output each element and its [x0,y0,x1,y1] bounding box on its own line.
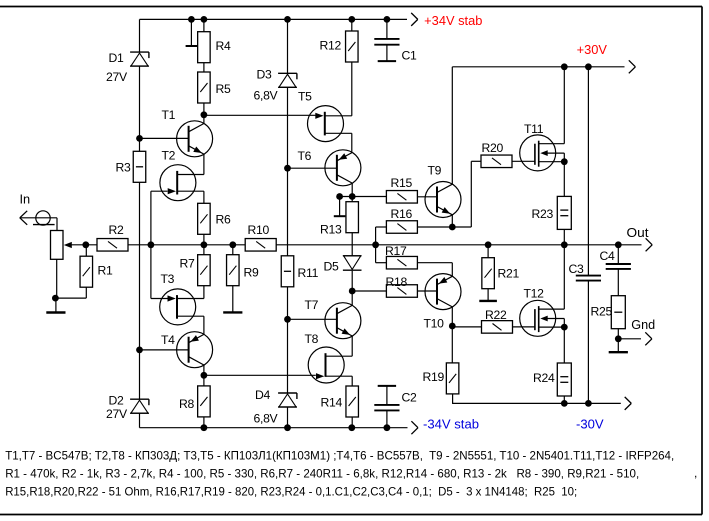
wire T1 base [140,137,189,139]
svg-text:C4: C4 [600,249,616,263]
wire R20 to T11 gate [512,160,535,162]
label D4 68V [254,412,279,426]
svg-text:R1: R1 [98,264,114,278]
label In [20,192,31,207]
label -30V [576,418,604,432]
label +34V stab [424,14,482,28]
resistor R9 [227,255,240,286]
svg-text:R5: R5 [216,82,232,96]
svg-text:D1: D1 [109,51,125,65]
wire R16 left bend [376,227,387,245]
resistor R7 [198,255,211,286]
label D2 27V [106,407,128,421]
power arrow +34V [411,13,418,26]
wire to R20 [452,161,481,227]
ground Gnd [609,339,628,352]
wire +34V top rail [140,18,408,20]
wire R5 to T1 [203,103,205,124]
transistor T1 [177,121,213,157]
wire R18 line [352,290,386,292]
node T10 collector junction [449,323,456,330]
node R8 rail junction [201,424,208,431]
transistor T2 [160,165,204,201]
node R21 junction [485,241,492,248]
wire C3 bottom [587,281,589,404]
resistor R24 [557,363,571,396]
resistor R19 [446,363,459,394]
label Out [627,225,649,240]
node T6 base junction [284,165,291,172]
wire D5 to T7 [351,271,353,306]
wire R1 bottom [55,287,86,298]
capacitor C2 [374,405,399,411]
wire T8 gate line [204,374,316,376]
wire D2 to rail [139,413,141,427]
svg-text:-30V: -30V [576,418,604,432]
wire R18 to T10 base [417,290,436,292]
svg-text:In: In [20,192,31,207]
wire bias to R11 [287,168,289,256]
resistor R20 [481,155,512,168]
label R20 [482,141,504,155]
label Gnd [631,317,655,332]
node output junction R16R17 [372,241,379,248]
svg-text:R24: R24 [533,371,555,385]
wire D3 to T6 base [287,88,289,169]
svg-text:T3: T3 [161,272,175,286]
resistor R2 [97,239,128,252]
svg-text:R13: R13 [320,223,342,237]
wire R16 right [417,226,452,228]
terminal bar C1 [378,60,396,62]
resistor R4 [198,32,211,63]
label D1 27V [106,70,128,84]
label T12 [524,287,545,301]
wire C4 top [617,245,619,264]
transistor T6 [325,150,361,186]
node R13 top junction [349,193,356,200]
label R25 [591,305,613,319]
wire T4 collector [203,365,205,386]
label T5 [298,90,312,104]
wire T5 source to T6 [351,133,353,152]
svg-text:C2: C2 [402,391,418,405]
wire R21 top [487,245,489,258]
input arrow [20,211,27,225]
label T1 [162,108,176,122]
resistor R13 [346,202,359,233]
label D4 [255,388,271,402]
wire R3 to T4 base [139,182,141,399]
resistor R11 [281,256,294,287]
svg-text:Gnd: Gnd [631,317,655,332]
svg-text:R12: R12 [320,39,342,53]
node C2 rail junction [384,424,391,431]
wire R22 left [452,326,481,328]
node T4 collector junction [201,372,208,379]
label T4 [161,333,175,347]
resistor R5 [198,72,211,103]
wire R24 bottom [563,396,565,403]
wire T2 gate [151,191,168,245]
label D3 68V [254,89,279,103]
node R6 R7 junction [201,241,208,248]
label R23 [532,207,554,221]
resistor R15 [386,191,417,204]
ground input [46,298,65,312]
wire C1 top [386,19,388,39]
label T2 [162,149,176,163]
svg-text:+30V: +30V [577,43,608,57]
label T10 [424,317,445,331]
transistor T9 [425,182,461,218]
label R14 [321,396,343,410]
svg-text:6,8V: 6,8V [254,89,279,103]
text parts line 3 [5,485,577,499]
zener D1 [130,52,149,66]
potentiometer input pot [51,231,64,260]
zener D3 [278,73,297,87]
node rail junction A [188,16,195,23]
ground R21 [479,289,497,301]
node input ground junction [52,295,59,302]
resistor R17 [386,256,417,269]
node C1 rail junction [384,16,391,23]
label R2 [109,223,125,237]
svg-text:R11: R11 [298,266,319,280]
svg-text:T10: T10 [424,317,445,331]
wire R19 bottom [452,394,454,404]
node gate junction [148,241,155,248]
label R16 [391,207,413,221]
svg-text:R15: R15 [391,176,413,190]
svg-text:,: , [694,466,697,480]
node T9 emitter junction [449,224,456,231]
svg-text:R6: R6 [216,213,232,227]
svg-text:D4: D4 [255,388,271,402]
resistor R8 [198,386,211,417]
label R7 [180,257,196,271]
node R14 rail junction [348,424,355,431]
label R22 [485,308,507,322]
svg-text:R23: R23 [532,207,554,221]
diode D5 [343,256,362,270]
wire T5 gate line [204,114,316,116]
resistor R14 [346,386,359,417]
svg-text:6,8V: 6,8V [254,412,279,426]
wire T2 source to R6 [203,191,205,203]
wire pot bottom [56,259,58,298]
resistor R18 [386,285,417,298]
label R24 [533,371,555,385]
wire T10 collector [451,307,453,326]
svg-text:R9: R9 [244,266,260,280]
zener D4 [278,393,297,407]
label R17 [385,244,407,258]
wire R14 bottom [351,417,353,428]
resistor R1 [80,256,93,287]
text parts line 2 [5,467,639,481]
wire -30V rail [452,402,621,404]
node R4 top junction [201,16,208,23]
svg-text:T4: T4 [161,333,175,347]
power arrow +30V [629,60,636,73]
wire C2 bottom [386,410,388,427]
wire R4 to R5 [203,63,205,72]
label R1 [98,264,114,278]
wire R1 top [85,245,87,256]
resistor R22 [482,321,513,334]
wire C4 to R25 [617,269,619,296]
label D2 [109,394,125,408]
label D1 [109,51,125,65]
svg-text:R22: R22 [485,308,507,322]
label R4 [216,39,232,53]
label R6 [216,213,232,227]
svg-text:Out: Out [627,225,649,240]
transistor T11 [520,135,565,171]
transistor T10 [425,274,461,310]
svg-text:27V: 27V [106,407,128,421]
svg-text:T8: T8 [305,332,319,346]
output arrow Gnd [645,332,652,345]
svg-text:R7: R7 [180,257,196,271]
node D3 rail junction [284,16,291,23]
label C4 [600,249,616,263]
label R12 [320,39,342,53]
label R8 [179,397,195,411]
svg-text:R3: R3 [116,161,132,175]
wire T11 drain [563,67,565,144]
transistor T5 [308,106,352,142]
node T11 drain rail junction [561,63,568,70]
label T8 [305,332,319,346]
wire D1 to R3 [139,66,141,151]
wire R12 top [351,19,353,31]
svg-text:C1: C1 [402,49,418,63]
svg-text:R14: R14 [321,396,343,410]
wire R12 to T5 [351,62,353,116]
wire R7 top [203,245,205,255]
label R21 [498,267,520,281]
wire -34V stab rail [140,427,408,429]
node C3 rail junction bottom [585,400,592,407]
wire R6 bottom [203,234,205,245]
capacitor C1 [374,39,399,45]
node T11 source junction [561,158,568,165]
label R13 [320,223,342,237]
node D5 bottom junction [349,288,356,295]
node T4 base junction [136,347,143,354]
wire R15 to T9 base [417,196,436,198]
node Gnd junction [615,335,622,342]
svg-text:T6: T6 [298,149,312,163]
power arrow -30V [625,397,632,410]
label C1 [402,49,418,63]
node D4 rail junction [284,424,291,431]
wire R17 left bend [376,245,387,263]
wire R11 to T7 base [287,287,289,393]
wire Gnd arrow line [618,338,641,340]
label +30V [577,43,608,57]
wire T3 source to T4 [203,316,205,334]
wire T4 base [140,349,189,351]
label R18 [386,275,408,289]
svg-text:T5: T5 [298,90,312,104]
wire T3 gate [151,245,168,299]
wire R9 top [232,245,234,255]
terminal bar C2 [378,385,396,387]
node R24 rail junction [561,400,568,407]
svg-text:D2: D2 [109,394,125,408]
label R3 [116,161,132,175]
label T7 [305,298,319,312]
node T1 base junction [136,135,143,142]
svg-text:R16: R16 [391,207,413,221]
resistor R3 [133,151,146,182]
svg-text:R18: R18 [386,275,408,289]
wire C3 top [587,67,589,276]
wire T6 base [288,167,337,169]
terminal bar near R4 [186,19,198,46]
label T3 [161,272,175,286]
svg-text:R25: R25 [591,305,613,319]
resistor R25 [611,296,625,329]
wire D3 top [287,19,289,73]
label D5 [324,260,340,274]
svg-text:T12: T12 [524,287,545,301]
wire T11 source to R23 [563,162,565,197]
resistor R6 [198,203,211,234]
svg-text:T1: T1 [162,108,176,122]
svg-text:T7: T7 [305,298,319,312]
svg-text:T11: T11 [524,122,544,136]
resistor R21 [482,258,495,289]
svg-text:R2: R2 [109,223,125,237]
text parts line 1 [5,448,674,462]
node T12 source junction [561,324,568,331]
label R19 [423,370,445,384]
wire R13 to D5 [351,233,353,256]
wire +30V rail [452,66,624,68]
wire T6 collector [351,183,353,201]
svg-text:R15,R18,R20,R22 - 51 Ohm, R16,: R15,R18,R20,R22 - 51 Ohm, R16,R17,R19 - … [5,485,577,499]
wire output line [71,244,641,246]
wire R19 top [451,326,453,363]
wire D4 to rail [287,407,289,428]
node output junction R23 [561,241,568,248]
output arrow Out [646,238,653,251]
wire T8 source to R14 [351,376,353,386]
svg-text:R1 - 470k, R2 - 1k, R3 - 2,7k,: R1 - 470k, R2 - 1k, R3 - 2,7k, R4 - 100,… [5,467,639,481]
label T9 [428,164,442,178]
svg-text:R20: R20 [482,141,504,155]
svg-text:27V: 27V [106,70,128,84]
wire R25 bottom [617,329,619,339]
svg-text:R4: R4 [216,39,232,53]
node T1 collector junction [201,111,208,118]
wire D1 top [139,19,141,52]
wire T12 drain [563,245,565,309]
label R5 [216,82,232,96]
svg-text:D3: D3 [257,68,273,82]
svg-text:R19: R19 [423,370,445,384]
label R10 [248,223,270,237]
node C4 output junction [615,241,622,248]
label -34V stab [423,418,479,432]
wire R22 to T12 gate [513,326,535,328]
transistor T4 [177,332,213,368]
wire R4 top [203,19,205,31]
label D3 [257,68,273,82]
node C3 rail junction top [585,63,592,70]
capacitor C4 [606,264,631,269]
label R11 [298,266,319,280]
wire input to pot [56,218,58,231]
label T6 [298,149,312,163]
node R2 left junction [82,241,89,248]
wire R23 bottom [563,229,565,244]
label C3 [569,262,585,276]
svg-text:D5: D5 [324,260,340,274]
svg-text:+34V stab: +34V stab [424,14,482,28]
label T11 [524,122,544,136]
svg-text:R17: R17 [385,244,407,258]
svg-text:T1,T7 - BC547B; T2,T8 - КП303Д: T1,T7 - BC547B; T2,T8 - КП303Д; T3,T5 - … [5,448,674,462]
zener D2 [130,399,149,413]
node R9 junction [229,241,236,248]
wire T1 emitter to T2 [203,154,205,174]
resistor R23 [557,196,571,229]
svg-text:R10: R10 [248,223,270,237]
svg-text:R21: R21 [498,267,520,281]
wire T7 base [288,318,337,320]
label R9 [244,266,260,280]
wire T9 collector [451,67,453,185]
label C2 [402,391,418,405]
wire C1 bottom [386,45,388,61]
wire T7 emitter to T8 [351,336,353,356]
ground R9 [223,286,242,313]
label R15 [391,176,413,190]
node T6 collector junction [336,193,343,200]
terminal bar near R13 [334,197,346,217]
wire R8 bottom [203,417,205,428]
svg-text:-34V stab: -34V stab [423,418,479,432]
transistor T8 [308,347,352,383]
resistor R16 [386,221,417,234]
wire R7 to T3 [203,286,205,299]
power arrow -34V [411,421,418,434]
resistor R10 [245,239,276,252]
node T7 base junction [284,316,291,323]
wire T9 emitter [451,215,453,227]
transistor T12 [520,300,565,336]
wire T6 collector node [340,196,387,198]
transistor T7 [325,303,361,339]
svg-text:T9: T9 [428,164,442,178]
node R12 rail junction [348,16,355,23]
transistor T3 [160,289,204,325]
wiper arrow [64,242,72,248]
resistor R12 [346,31,359,62]
svg-text:C3: C3 [569,262,585,276]
text stray comma [694,466,697,480]
svg-text:R8: R8 [179,397,195,411]
svg-text:T2: T2 [162,149,176,163]
wire C2 top [386,386,388,405]
input connector [20,211,57,225]
